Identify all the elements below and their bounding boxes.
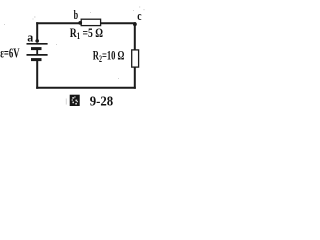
svg-text:ε=6V: ε=6V [0,46,20,61]
wire bottom [36,87,136,89]
svg-text:b: b [74,7,79,22]
battery cell1 negative thick plate [31,47,42,50]
resistor R1 box [81,19,100,25]
battery cell2 positive long plate [27,54,48,56]
battery cell2 negative thick plate [31,58,42,61]
battery cell1 positive long plate [27,43,48,45]
resistor R2 box [132,50,139,67]
battery inter-cell stub wire [36,49,38,55]
svg-text:R2=10 Ω: R2=10 Ω [93,48,125,64]
svg-text:a: a [27,29,33,44]
wire left upper (top corner down to node a) [36,22,38,40]
svg-text:R1 =5 Ω: R1 =5 Ω [70,25,103,41]
svg-text:9-28: 9-28 [90,94,114,109]
node c junction dot [133,22,137,26]
svg-text:c: c [137,8,141,23]
node a junction dot [35,39,39,43]
scan noise specks [4,7,145,105]
wire right (c down to bottom corner) [134,22,136,89]
wire top (node a corner to node c corner) [36,22,136,24]
wire left lower (battery to bottom corner) [36,60,38,89]
caption hanzi tu (figure) glyph drawn as dark square [70,95,80,106]
node b junction dot [78,21,82,25]
